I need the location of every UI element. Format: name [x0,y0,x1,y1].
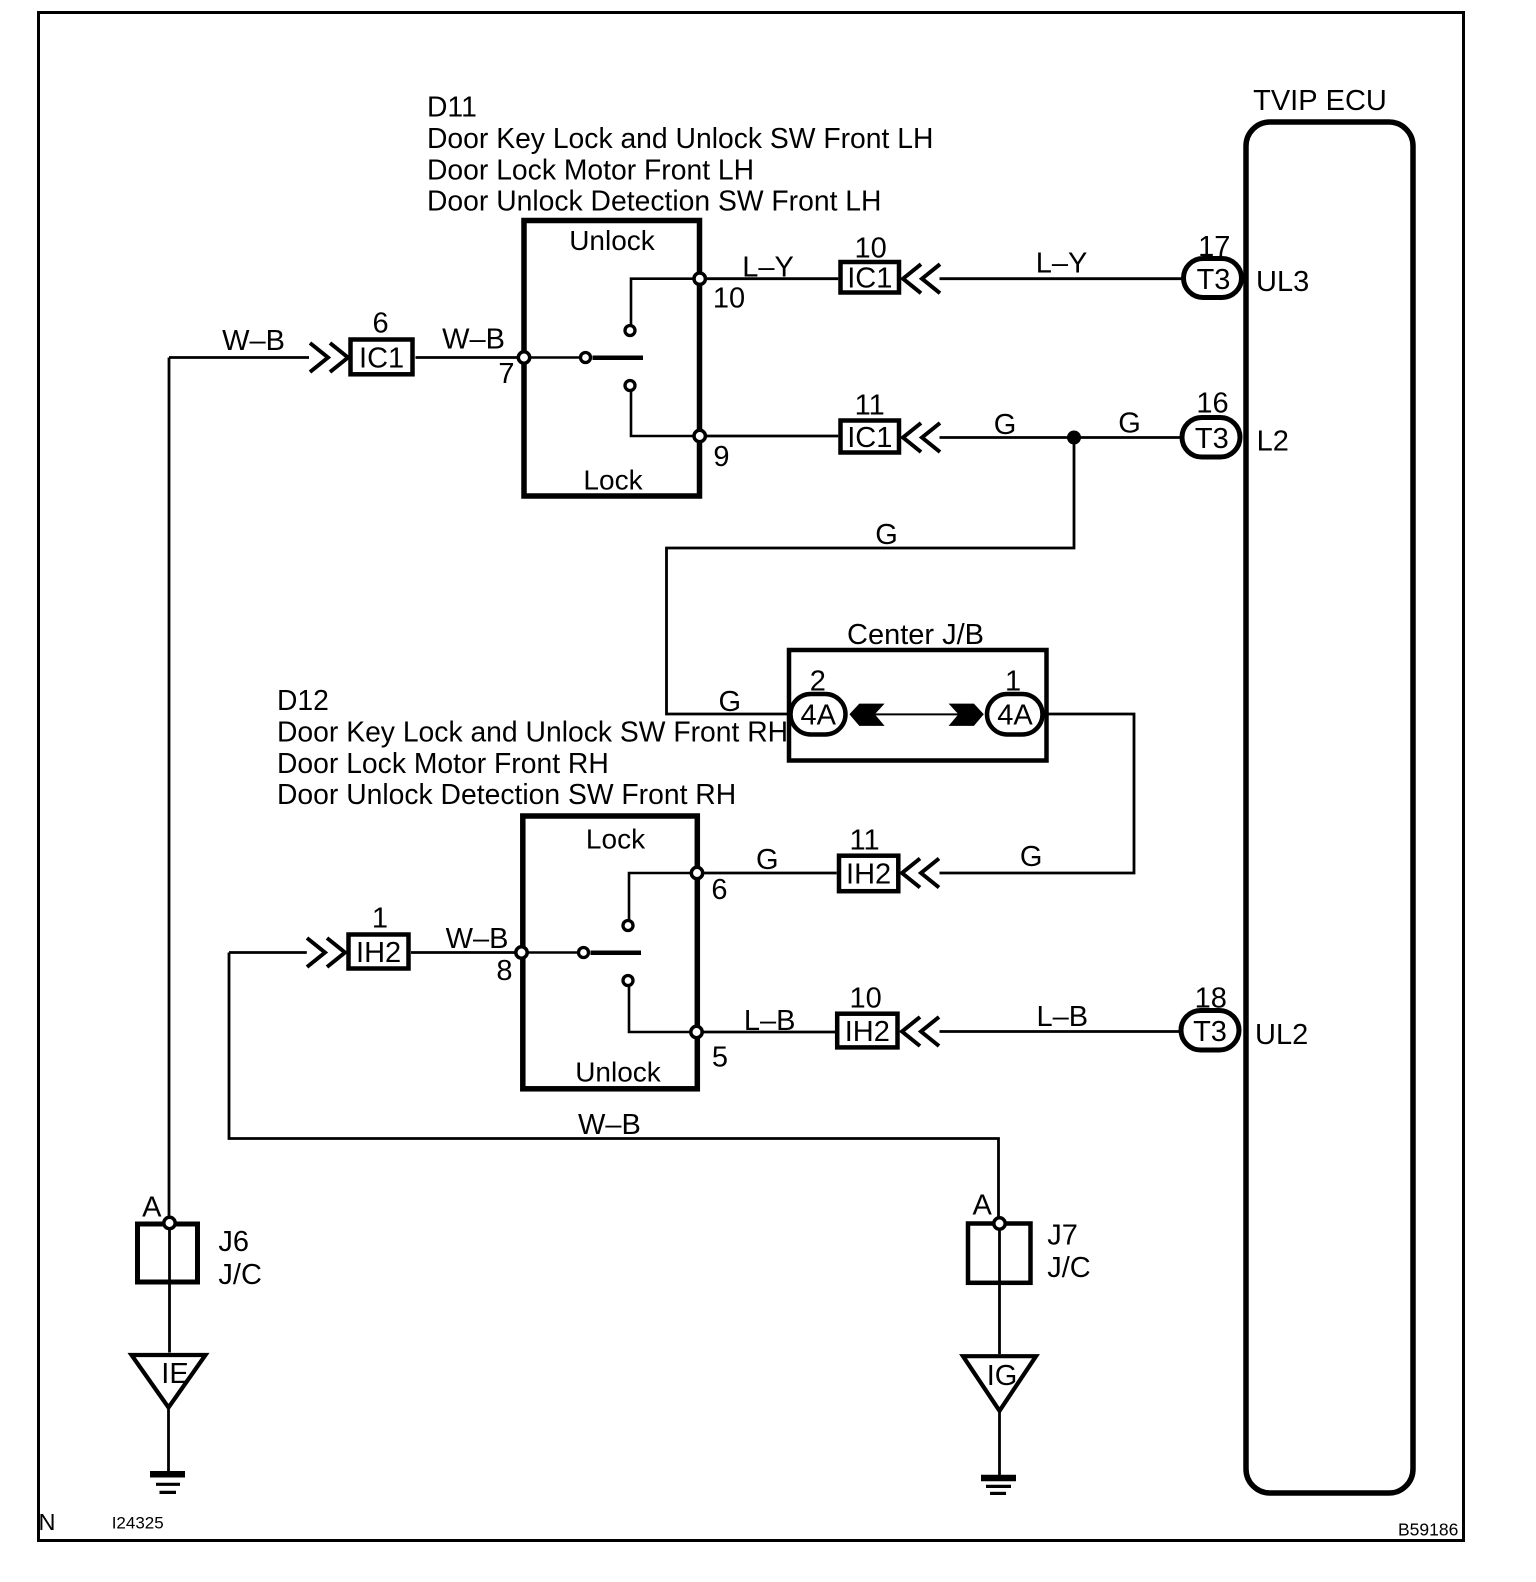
svg-text:16: 16 [1196,388,1228,420]
wire G Center J/B to IH2 row [940,714,1135,873]
svg-text:17: 17 [1198,231,1230,263]
svg-text:Lock: Lock [586,824,646,855]
wire W-B LH vertical to J6 [168,358,171,1224]
label D12 description [277,684,788,810]
svg-text:IE: IE [161,1358,188,1390]
svg-text:Door Lock Motor Front LH: Door Lock Motor Front LH [427,153,754,185]
svg-text:T3: T3 [1197,264,1231,296]
svg-text:IC1: IC1 [847,422,892,454]
svg-text:L–B: L–B [1036,1001,1088,1033]
switch D12 lock contact riser [629,873,697,921]
svg-text:I24325: I24325 [112,1514,164,1533]
svg-text:10: 10 [713,283,745,315]
switch D11 unlock contact [625,326,635,336]
svg-text:11: 11 [850,825,880,857]
switch D12 box [523,816,698,1089]
svg-text:G: G [1020,841,1043,873]
svg-text:10: 10 [854,233,886,265]
svg-text:G: G [875,519,898,551]
wire W-B IC1 to terminal 7 [416,356,525,359]
connector IC1 pin 10 arrows [903,264,940,293]
switch D11 box [524,221,700,497]
connector IH2 pin 10 arrows [902,1017,939,1046]
label I24325 [112,1514,164,1533]
label L-B left [744,1005,796,1037]
connector 4A pin 2 arrow [849,704,884,726]
connector IH2 pin 1 arrows [307,938,345,967]
wire J6 to IE triangle [168,1223,171,1353]
ground symbol left [150,1474,185,1492]
connector IC1 pin 11 arrows [903,423,940,452]
terminal 9 [694,430,730,473]
switch D11 blade [593,356,644,361]
connector 4A pin 2 [791,666,846,735]
ground IG [963,1356,1036,1411]
connector IH2 pin 10 [837,983,897,1049]
svg-text:TVIP ECU: TVIP ECU [1253,85,1387,117]
terminal 6 [691,867,727,906]
svg-text:G: G [1118,408,1141,440]
label G row IH2 right [1020,841,1043,873]
label W-B RH left [446,923,509,955]
switch D11 common line [524,356,586,359]
node L2 [1257,426,1289,458]
switch D11 lock contact [625,381,635,391]
svg-text:T3: T3 [1195,423,1229,455]
svg-text:IC1: IC1 [847,263,892,295]
label G row IH2 left [756,844,779,876]
svg-text:IC1: IC1 [359,343,404,375]
svg-text:W–B: W–B [446,923,509,955]
label G row L2 right [1118,408,1141,440]
svg-text:11: 11 [855,390,885,422]
junction G [1067,431,1081,445]
svg-text:7: 7 [498,358,514,390]
ground IE [132,1355,206,1408]
label W-B right [442,324,505,356]
svg-text:Door Unlock Detection SW Front: Door Unlock Detection SW Front LH [427,185,881,217]
connector 4A pin 1 arrow [949,704,984,726]
node A J7 [973,1190,1006,1230]
switch D12 lock contact [623,921,633,931]
switch D12 unlock contact [623,976,633,986]
wire W-B LH horizontal to connector [169,356,309,359]
svg-text:IH2: IH2 [846,858,891,890]
svg-text:Center J/B: Center J/B [847,619,984,651]
switch D12 pivot contact [579,948,589,958]
svg-text:1: 1 [372,903,388,935]
wire G terminal 6 to IH2 [697,872,837,875]
switch D11 pivot contact [581,353,591,363]
svg-text:L–B: L–B [744,1005,796,1037]
label W-B left [222,325,285,357]
svg-text:9: 9 [713,441,729,473]
svg-text:IH2: IH2 [356,937,401,969]
connector IC1 pin 6 [351,308,413,375]
label G row L2 left [994,409,1017,441]
svg-text:W–B: W–B [578,1109,641,1141]
svg-text:Unlock: Unlock [575,1057,662,1088]
junction block J6 [138,1224,262,1291]
svg-text:B59186: B59186 [1398,1520,1458,1540]
svg-text:L–Y: L–Y [742,252,794,284]
connector T3 pin 16 L2 [1182,388,1240,458]
label N [39,1509,56,1535]
label B59186 [1398,1520,1458,1540]
wire G IC1 to T3 L2 [940,436,1187,439]
connector T3 pin 17 UL3 [1184,231,1242,298]
connector 4A pin 1 [987,666,1043,735]
svg-text:A: A [142,1192,162,1224]
label G at Center J/B [719,686,742,718]
wire IE to ground [167,1407,170,1473]
svg-text:6: 6 [373,308,389,340]
svg-text:IG: IG [987,1360,1018,1392]
wire W-B RH to connector [229,951,307,954]
wire J7 to IG triangle [998,1224,1001,1355]
svg-text:UL2: UL2 [1255,1019,1308,1051]
svg-text:Door Key Lock and Unlock SW Fr: Door Key Lock and Unlock SW Front RH [277,715,788,747]
svg-text:J/C: J/C [1047,1252,1091,1284]
switch D11 unlock contact riser [631,279,700,326]
svg-text:G: G [994,409,1017,441]
switch D12 blade [591,951,642,956]
connector IC1 pin 10 [841,233,900,295]
terminal 7 [498,352,529,390]
label W-B bottom [578,1109,641,1141]
svg-text:L–Y: L–Y [1036,248,1088,280]
label L-B right [1036,1001,1088,1033]
svg-text:Door Lock Motor Front RH: Door Lock Motor Front RH [277,747,609,779]
svg-text:10: 10 [849,983,881,1015]
svg-text:8: 8 [496,955,512,987]
terminal 10 [694,273,745,315]
junction block J7 [968,1220,1091,1285]
connector IH2 pin 1 [349,903,409,970]
svg-text:6: 6 [711,874,727,906]
svg-text:G: G [719,686,742,718]
svg-text:W–B: W–B [442,324,505,356]
svg-text:18: 18 [1195,983,1227,1015]
connector IH2 pin 11 arrows [902,859,939,888]
svg-text:Unlock: Unlock [569,225,656,256]
label L-Y right [1036,248,1088,280]
wire G junction branch to Center J/B [667,438,1075,715]
ground symbol right [981,1478,1016,1493]
label L-Y left [742,252,794,284]
node UL2 [1255,1019,1308,1051]
wire IG to ground [998,1409,1001,1477]
wire L-B IH2 to T3 UL2 [940,1030,1187,1033]
svg-text:J7: J7 [1047,1220,1078,1252]
svg-text:D12: D12 [277,684,329,716]
svg-text:Lock: Lock [583,465,643,496]
switch D12 common line [522,951,584,954]
node A J6 [142,1192,175,1229]
svg-text:4A: 4A [997,699,1033,731]
label D11 description [427,91,933,217]
TVIP ECU box [1246,85,1413,1493]
wire L-B terminal 5 to IH2 [697,1031,837,1034]
svg-text:UL3: UL3 [1256,266,1309,298]
terminal 8 [496,947,527,987]
svg-text:T3: T3 [1193,1016,1227,1048]
connector IC1 pin 11 [841,390,900,454]
connector IC1 pin 6 arrows [310,343,348,372]
switch D11 lock contact riser [631,390,700,436]
Center J/B link wire [874,713,959,715]
svg-text:4A: 4A [800,699,836,731]
svg-text:N: N [39,1509,56,1535]
svg-text:D11: D11 [427,91,477,123]
terminal 5 [691,1026,728,1073]
wire W-B RH down across to J7 [229,953,999,1224]
label G branch [875,519,898,551]
wire L-Y IC1 to T3 UL3 [940,277,1187,280]
connector IH2 pin 11 [839,825,898,892]
svg-text:2: 2 [810,666,826,698]
wire G terminal 9 to IC1 [700,435,839,438]
svg-text:A: A [973,1190,993,1222]
connector T3 pin 18 UL2 [1181,983,1239,1051]
switch D12 unlock contact riser [629,986,697,1032]
wire W-B IH2 to terminal 8 [411,951,522,954]
wire L-Y terminal 10 to IC1 [700,277,839,280]
node UL3 [1256,266,1309,298]
svg-text:W–B: W–B [222,325,285,357]
svg-text:Door Key Lock and Unlock SW Fr: Door Key Lock and Unlock SW Front LH [427,122,933,154]
Center J/B box [789,619,1047,761]
svg-text:IH2: IH2 [845,1016,890,1048]
svg-text:J/C: J/C [218,1259,262,1291]
svg-text:J6: J6 [218,1226,249,1258]
svg-text:G: G [756,844,779,876]
svg-text:5: 5 [712,1042,728,1074]
svg-text:1: 1 [1005,666,1021,698]
svg-text:Door Unlock Detection SW Front: Door Unlock Detection SW Front RH [277,778,736,810]
svg-text:L2: L2 [1257,426,1289,458]
